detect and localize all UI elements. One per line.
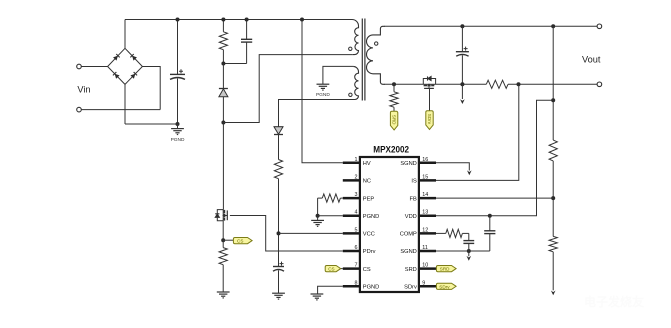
svg-text:12: 12 [422, 227, 428, 233]
junction [221, 121, 225, 125]
wire gate Q2 [429, 88, 431, 111]
svg-text:电子发烧友: 电子发烧友 [584, 294, 644, 309]
arrow SGND [467, 170, 472, 175]
svg-text:FB: FB [410, 196, 417, 202]
junction [488, 214, 492, 218]
ground [217, 291, 230, 293]
transformer secondary winding [367, 26, 385, 84]
svg-text:6: 6 [355, 245, 358, 251]
wire [223, 239, 234, 241]
svg-text:1: 1 [355, 157, 358, 163]
transformer aux winding [350, 66, 359, 99]
terminal Vout- [597, 82, 602, 87]
svg-text:CS: CS [363, 267, 371, 273]
svg-text:SDrv: SDrv [404, 285, 417, 291]
wire SGND pin16 [436, 163, 469, 171]
flag CS pin7 [339, 268, 342, 270]
junction [551, 196, 555, 200]
diode D clamp [222, 64, 224, 89]
wire [124, 84, 126, 124]
resistor R shunt [486, 80, 508, 88]
svg-text:SRD: SRD [392, 115, 397, 125]
flag SDrv pin9 [435, 285, 437, 287]
junction [221, 18, 225, 22]
flag SDrv vertical [426, 111, 433, 130]
svg-text:IS: IS [411, 179, 417, 185]
wire pin4 [318, 215, 343, 217]
svg-text:PGND: PGND [363, 285, 379, 291]
svg-text:CS: CS [328, 267, 334, 272]
arrow SGND [461, 84, 463, 99]
svg-text:SRD: SRD [440, 267, 450, 272]
wire SGND pin11 [436, 250, 490, 252]
junction [551, 24, 555, 28]
resistor R vcc [278, 135, 280, 160]
wire [279, 100, 351, 127]
resistor R srd [393, 84, 395, 92]
junction [176, 18, 180, 22]
wire [223, 63, 246, 65]
op-amp U1 MPX2002 [360, 157, 419, 292]
svg-text:PGND: PGND [316, 92, 330, 98]
svg-text:VCC: VCC [363, 232, 375, 238]
resistor R comp [436, 232, 446, 234]
wire [552, 26, 554, 140]
capacitor C out [461, 26, 463, 51]
mosfet Q1 [217, 210, 223, 214]
wire sec top rail [385, 25, 598, 27]
wire [124, 20, 126, 49]
ground PGND aux [317, 83, 330, 85]
resistor R fb2 [549, 236, 557, 251]
wire top rail [125, 19, 352, 21]
svg-text:SRD: SRD [405, 267, 417, 273]
wire switch node [222, 123, 224, 210]
ground [311, 293, 324, 295]
terminal Vin+ [77, 64, 82, 69]
arrow SGND [468, 251, 470, 256]
junction [316, 214, 320, 218]
svg-text:SGND: SGND [400, 161, 416, 167]
transformer core [361, 19, 363, 101]
junction [460, 82, 464, 86]
transformer primary winding [352, 20, 359, 55]
arrow SGND [551, 291, 556, 296]
bridge rectifier BR1 [108, 48, 143, 84]
wire [81, 66, 107, 68]
diode D vcc [274, 126, 283, 128]
resistor R fb1 [549, 140, 557, 161]
terminal Vout+ [597, 24, 602, 29]
svg-text:15: 15 [422, 174, 428, 180]
svg-text:COMP: COMP [400, 232, 417, 238]
junction [392, 82, 396, 86]
wire [436, 83, 487, 85]
wire [508, 83, 597, 85]
wire [222, 221, 224, 240]
svg-text:10: 10 [422, 263, 428, 269]
wire [552, 252, 554, 290]
wire [317, 198, 319, 216]
svg-text:11: 11 [422, 245, 428, 251]
flag CS [233, 238, 252, 244]
svg-text:MPX2002: MPX2002 [373, 145, 409, 155]
svg-text:16: 16 [422, 157, 428, 163]
mosfet Q2 [423, 79, 427, 85]
resistor R pep [318, 197, 323, 199]
svg-text:NC: NC [363, 179, 371, 185]
junction [245, 18, 249, 22]
ground [272, 292, 285, 294]
capacitor C snubber [246, 20, 248, 40]
wire VDD pin13 [436, 100, 553, 215]
svg-text:14: 14 [422, 192, 428, 198]
resistor R cs [222, 240, 224, 247]
junction [551, 98, 555, 102]
junction [460, 24, 464, 28]
svg-text:13: 13 [422, 210, 428, 216]
capacitor C1 [177, 20, 179, 75]
phase dot [349, 47, 352, 50]
svg-text:HV: HV [363, 161, 371, 167]
svg-text:4: 4 [355, 210, 358, 216]
ground PGND input [171, 124, 185, 143]
wire [81, 109, 160, 111]
wire [142, 67, 160, 110]
wire HV [302, 20, 343, 163]
svg-text:8: 8 [355, 280, 358, 286]
capacitor C comp [468, 233, 470, 240]
junction [467, 249, 471, 253]
phase dot [375, 42, 378, 45]
wire FB pin14 [436, 197, 553, 199]
wire gate Q1 [230, 216, 343, 252]
svg-text:PGND: PGND [171, 137, 185, 143]
flag SRD pin10 [435, 268, 437, 270]
svg-text:VDD: VDD [405, 214, 417, 220]
wire [323, 66, 353, 84]
wire sec bottom rail [385, 83, 424, 85]
svg-text:SDrv: SDrv [427, 114, 432, 125]
junction [176, 122, 180, 126]
terminal Vin- [77, 107, 82, 112]
svg-text:PGND: PGND [363, 214, 379, 220]
capacitor C vdd [489, 216, 491, 231]
svg-text:SDrv: SDrv [439, 284, 450, 289]
wire clamp return [223, 55, 352, 123]
svg-text:9: 9 [422, 280, 425, 286]
flag SRD vertical [390, 111, 397, 130]
wire VCC [279, 232, 343, 234]
svg-text:PEP: PEP [363, 196, 375, 202]
wire pin8 [318, 286, 343, 294]
svg-text:PDrv: PDrv [363, 249, 376, 255]
junction [300, 18, 304, 22]
capacitor C vcc [273, 266, 284, 268]
wire [552, 161, 554, 237]
svg-text:SGND: SGND [400, 249, 416, 255]
ground [317, 216, 319, 221]
junction [277, 231, 281, 235]
svg-text:7: 7 [355, 263, 358, 269]
junction [517, 82, 521, 86]
svg-text:CS: CS [237, 239, 243, 244]
wire [125, 123, 178, 125]
junction [221, 238, 225, 242]
junction [221, 62, 225, 66]
svg-text:Vout: Vout [582, 54, 601, 64]
svg-text:5: 5 [355, 227, 358, 233]
wire IS pin15 [436, 84, 519, 180]
resistor R snubber [222, 20, 224, 32]
phase dot [349, 93, 352, 96]
svg-text:2: 2 [355, 174, 358, 180]
svg-text:3: 3 [355, 192, 358, 198]
svg-text:Vin: Vin [77, 85, 90, 95]
